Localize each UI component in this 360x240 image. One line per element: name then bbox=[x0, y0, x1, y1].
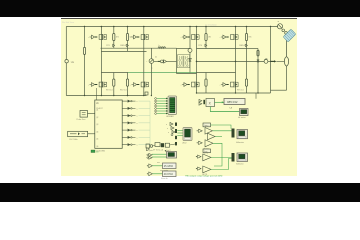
svg-text:RT1: RT1 bbox=[106, 45, 110, 47]
svg-text:Iw: Iw bbox=[155, 57, 158, 59]
svg-text:LEDBAR: LEDBAR bbox=[166, 115, 174, 118]
svg-text:+: + bbox=[220, 37, 221, 39]
svg-text:a: a bbox=[137, 130, 138, 132]
svg-text:1R5: 1R5 bbox=[208, 37, 211, 39]
svg-text:+: + bbox=[181, 84, 182, 86]
svg-text:Voltmeter: Voltmeter bbox=[236, 162, 244, 165]
svg-text:Q5: Q5 bbox=[96, 139, 98, 141]
svg-text:File Edit View: File Edit View bbox=[62, 21, 75, 24]
svg-text:M: M bbox=[278, 21, 280, 23]
svg-text:a: a bbox=[137, 123, 138, 125]
svg-text:Q4: Q4 bbox=[96, 131, 98, 133]
svg-text:AD711: AD711 bbox=[205, 125, 210, 128]
svg-text:Pulse Gen: Pulse Gen bbox=[77, 119, 86, 121]
svg-text:RT4: RT4 bbox=[198, 45, 202, 47]
svg-text:a: a bbox=[137, 116, 138, 118]
svg-text:+: + bbox=[181, 37, 182, 39]
svg-text:a: a bbox=[168, 132, 169, 134]
svg-text:u: u bbox=[152, 67, 153, 69]
svg-text:1N4148: 1N4148 bbox=[120, 45, 127, 47]
svg-text:Q2: Q2 bbox=[96, 117, 98, 119]
svg-text:1N4148: 1N4148 bbox=[239, 45, 246, 47]
svg-text:25.1836: 25.1836 bbox=[164, 165, 174, 168]
svg-text:Ua: Ua bbox=[71, 61, 75, 64]
svg-text:Q1: Q1 bbox=[96, 110, 98, 112]
svg-text:Lr: Lr bbox=[159, 45, 161, 47]
svg-text:THD analysis: output voltage s: THD analysis: output voltage spectrum 50… bbox=[185, 174, 222, 177]
svg-text:a: a bbox=[167, 128, 168, 130]
svg-text:1R5: 1R5 bbox=[116, 37, 119, 39]
svg-text:a: a bbox=[166, 124, 167, 126]
svg-text:VT Vrms ab: VT Vrms ab bbox=[153, 149, 163, 152]
svg-text:+: + bbox=[88, 37, 89, 39]
svg-text:f,Δ: f,Δ bbox=[230, 107, 233, 110]
svg-text:a: a bbox=[137, 101, 138, 103]
svg-text:RT2 1.0: RT2 1.0 bbox=[120, 90, 127, 92]
svg-text:Q0: Q0 bbox=[96, 102, 98, 104]
svg-text:Vrms ab: Vrms ab bbox=[161, 178, 168, 180]
svg-text:a: a bbox=[137, 137, 138, 139]
svg-text:085 032: 085 032 bbox=[227, 100, 238, 104]
svg-text:1R5: 1R5 bbox=[130, 37, 133, 39]
svg-text:Voltmeter: Voltmeter bbox=[236, 141, 244, 144]
svg-text:a: a bbox=[137, 108, 138, 110]
svg-text:+: + bbox=[88, 84, 89, 86]
svg-text:no simulation: no simulation bbox=[205, 24, 217, 27]
svg-text:rms: rms bbox=[157, 162, 160, 164]
svg-text:a: a bbox=[137, 145, 138, 147]
svg-text:LED2: LED2 bbox=[182, 143, 187, 145]
svg-text:RT3 1.0: RT3 1.0 bbox=[106, 90, 113, 92]
svg-text:49.9702: 49.9702 bbox=[164, 173, 174, 176]
svg-text:Q3: Q3 bbox=[96, 124, 98, 126]
svg-text:+: + bbox=[130, 84, 131, 86]
svg-text:Q6: Q6 bbox=[96, 146, 98, 148]
svg-text:+: + bbox=[220, 84, 221, 86]
svg-text:CLK 50Hz: CLK 50Hz bbox=[69, 139, 78, 141]
svg-text:RT5 1.0: RT5 1.0 bbox=[237, 89, 244, 91]
svg-text:1R5: 1R5 bbox=[249, 37, 252, 39]
svg-text:+: + bbox=[146, 61, 147, 63]
svg-text:Hz meter: Hz meter bbox=[238, 116, 246, 119]
